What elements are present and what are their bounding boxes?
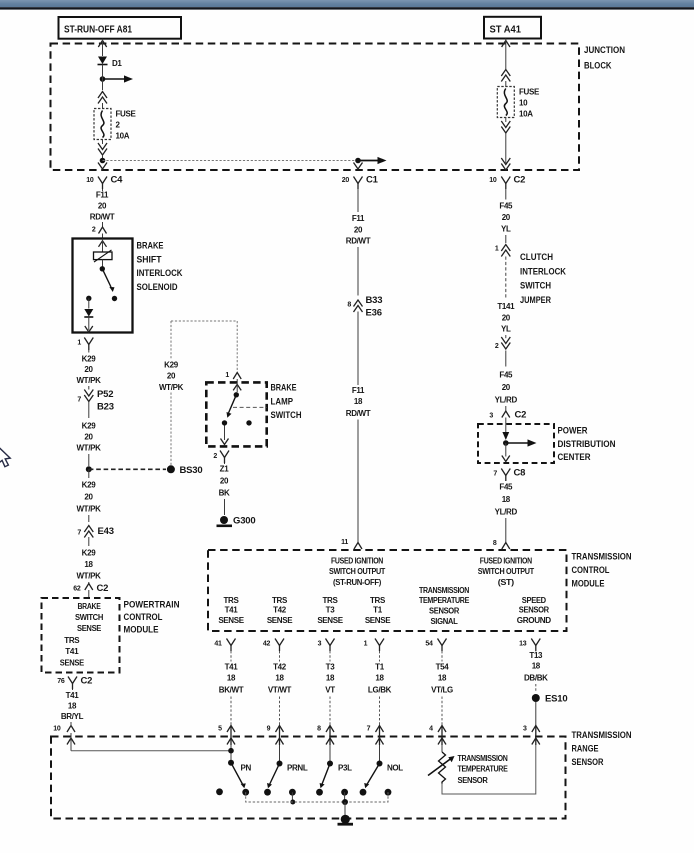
svg-text:F45: F45	[499, 483, 513, 492]
svg-text:20: 20	[502, 213, 511, 222]
svg-text:20: 20	[342, 177, 350, 184]
connector pin 5 (TRS)	[218, 726, 235, 746]
svg-text:K29: K29	[82, 481, 97, 490]
svg-text:T3: T3	[326, 606, 336, 615]
svg-text:C4: C4	[111, 175, 124, 186]
connector pin 1 (solenoid)	[77, 326, 93, 350]
svg-text:TRS: TRS	[224, 596, 240, 605]
svg-text:1: 1	[495, 246, 499, 253]
svg-text:7: 7	[77, 397, 81, 404]
svg-text:20: 20	[502, 314, 511, 323]
svg-text:ST A41: ST A41	[490, 23, 522, 35]
connector pin 1 (brake lamp switch)	[225, 372, 241, 383]
svg-text:1: 1	[225, 372, 229, 379]
svg-text:TRANSMISSION: TRANSMISSION	[572, 730, 632, 741]
connector pin 4 (TRS)	[429, 726, 446, 746]
wire K29 20 WT/PK (2)	[76, 422, 101, 467]
svg-text:C2: C2	[515, 410, 527, 421]
svg-text:BRAKE: BRAKE	[78, 602, 102, 611]
svg-text:Z1: Z1	[220, 465, 230, 474]
connector pin 42 (TCM)	[263, 639, 284, 652]
wire T13 18 DB/BK	[524, 651, 548, 692]
solenoid entry connector	[99, 241, 107, 247]
svg-text:SWITCH: SWITCH	[520, 281, 551, 292]
connector pin 8 (TCM)	[493, 540, 510, 549]
svg-text:WT/PK: WT/PK	[76, 572, 101, 581]
svg-text:10: 10	[86, 177, 94, 184]
svg-text:1: 1	[364, 641, 368, 648]
svg-text:CONTROL: CONTROL	[124, 612, 163, 623]
svg-text:TRANSMISSION: TRANSMISSION	[419, 586, 469, 595]
node label ST A41	[484, 17, 541, 39]
svg-text:SENSE: SENSE	[77, 624, 102, 633]
svg-text:MODULE: MODULE	[572, 579, 605, 590]
svg-text:T41: T41	[65, 647, 79, 656]
TCM label fused ignition st	[478, 557, 534, 587]
svg-text:FUSE: FUSE	[116, 110, 137, 119]
connector at A81 entry	[98, 41, 106, 48]
svg-text:K29: K29	[164, 361, 179, 370]
svg-text:C2: C2	[97, 583, 109, 594]
wire T1 18 LG/BK	[368, 651, 392, 726]
svg-text:BK/WT: BK/WT	[219, 686, 244, 695]
svg-text:YL: YL	[501, 225, 511, 234]
svg-text:BRAKE: BRAKE	[271, 383, 297, 394]
wire T54 18 VT/LG	[431, 651, 453, 726]
svg-text:F45: F45	[499, 202, 513, 211]
connector pin 9 (TRS)	[267, 726, 284, 746]
svg-text:T141: T141	[497, 302, 515, 311]
svg-text:20: 20	[354, 226, 363, 235]
wire K29 20 WT/PK (1)	[76, 350, 101, 390]
connector pin 3 (TRS)	[523, 726, 540, 746]
svg-text:TEMPERATURE: TEMPERATURE	[458, 765, 509, 774]
solenoid coil	[94, 239, 113, 267]
svg-text:E36: E36	[366, 308, 382, 319]
svg-text:SENSOR: SENSOR	[519, 606, 550, 615]
brake shift interlock solenoid	[73, 239, 183, 333]
svg-text:F11: F11	[352, 386, 365, 395]
connector pin 7 (TRS)	[367, 726, 384, 746]
window title bar	[0, 0, 694, 10]
TCM label TRS T1 SENSE	[365, 596, 391, 625]
svg-text:8: 8	[347, 302, 351, 309]
svg-text:9: 9	[267, 726, 271, 733]
wire T42 18 VT/WT	[268, 651, 292, 726]
wire T41 18 BK/WT	[219, 651, 244, 726]
svg-text:F11: F11	[352, 214, 365, 223]
svg-text:18: 18	[438, 674, 447, 683]
wire Z1 20 BK	[219, 463, 230, 515]
svg-text:18: 18	[326, 674, 335, 683]
TCM label TRS T3 SENSE	[317, 596, 343, 625]
svg-text:CLUTCH: CLUTCH	[520, 252, 553, 263]
PDC node and arrows	[502, 424, 537, 462]
svg-text:T3: T3	[326, 663, 336, 672]
connector pin 54 (TCM)	[425, 639, 446, 652]
svg-text:B23: B23	[97, 402, 114, 413]
svg-text:2: 2	[213, 453, 217, 460]
switch PN	[228, 760, 251, 796]
svg-text:T54: T54	[436, 663, 450, 672]
wire pin 10 link	[71, 733, 231, 751]
svg-text:WT/PK: WT/PK	[76, 505, 101, 514]
svg-text:TRS: TRS	[323, 596, 339, 605]
svg-text:18: 18	[227, 674, 236, 683]
TCM label speed sensor ground	[517, 596, 552, 625]
connector C1 pin 20	[342, 163, 379, 190]
brake lamp switch contacts	[222, 382, 267, 425]
svg-text:BRAKE: BRAKE	[137, 241, 164, 252]
svg-text:8: 8	[317, 726, 321, 733]
svg-text:T42: T42	[273, 606, 287, 615]
svg-text:SENSE: SENSE	[60, 659, 85, 668]
wire K29 18 WT/PK	[76, 549, 101, 584]
node J1	[100, 76, 106, 82]
svg-text:76: 76	[57, 678, 65, 685]
svg-text:7: 7	[77, 530, 81, 537]
ground (TRS case)	[338, 802, 354, 826]
svg-text:BS30: BS30	[180, 465, 203, 476]
svg-text:11: 11	[341, 539, 348, 546]
svg-text:C1: C1	[366, 175, 379, 186]
in-line connector above fuse 2	[98, 92, 107, 104]
connector pin 41 (TCM)	[214, 639, 235, 652]
wire F45 20 YL	[499, 189, 513, 243]
svg-text:T1: T1	[373, 606, 383, 615]
switch NOL	[360, 745, 404, 796]
wire T3 18 VT	[325, 651, 335, 726]
in-line connector P52 B23	[77, 389, 113, 418]
svg-text:SENSE: SENSE	[317, 616, 343, 625]
svg-text:T42: T42	[273, 663, 287, 672]
svg-text:K29: K29	[82, 422, 97, 431]
contact dot (bus tap 1)	[289, 789, 296, 805]
transmission control module	[208, 550, 632, 631]
wire F11 20 RD/WT (C1)	[346, 189, 371, 296]
svg-text:FUSED IGNITION: FUSED IGNITION	[480, 557, 532, 566]
svg-text:BR/YL: BR/YL	[61, 712, 84, 721]
svg-text:POWERTRAIN: POWERTRAIN	[124, 600, 180, 611]
wire F11 20 RD/WT (C4)	[90, 189, 115, 227]
svg-text:TRANSMISSION: TRANSMISSION	[572, 552, 632, 563]
svg-text:RD/WT: RD/WT	[346, 409, 371, 418]
connector C2 pin 3	[489, 410, 526, 425]
connector C2 pin 10 (right)	[489, 158, 525, 189]
in-line connector E43	[77, 526, 113, 547]
svg-text:RANGE: RANGE	[572, 744, 599, 755]
svg-text:3: 3	[318, 641, 322, 648]
svg-text:ST-RUN-OFF A81: ST-RUN-OFF A81	[64, 24, 132, 36]
svg-text:1: 1	[77, 340, 81, 347]
diode D1	[98, 57, 123, 77]
svg-text:RD/WT: RD/WT	[90, 213, 115, 222]
in-line connector B33 E36	[347, 295, 382, 319]
ground G300	[217, 516, 256, 528]
connector pin 10 (TRS)	[53, 722, 75, 745]
svg-text:8: 8	[493, 540, 497, 547]
svg-text:FUSE: FUSE	[519, 88, 540, 97]
in-line connector above fuse 10	[501, 70, 510, 82]
svg-text:SENSE: SENSE	[218, 616, 244, 625]
splice BS30	[167, 465, 203, 476]
svg-text:TRANSMISSION: TRANSMISSION	[458, 754, 508, 763]
connector pin 2 (solenoid)	[92, 227, 107, 239]
connector C8 pin 7	[493, 468, 525, 482]
svg-text:2: 2	[495, 343, 499, 350]
svg-text:54: 54	[425, 641, 433, 648]
connector C2 pin 62	[73, 583, 108, 598]
transmission temperature sensor	[428, 745, 508, 785]
svg-text:VT/LG: VT/LG	[431, 686, 453, 695]
common bus	[246, 792, 388, 805]
svg-text:SWITCH: SWITCH	[271, 410, 302, 421]
svg-text:20: 20	[84, 493, 93, 502]
svg-text:YL/RD: YL/RD	[495, 396, 518, 405]
svg-text:18: 18	[532, 662, 541, 671]
svg-text:P52: P52	[97, 389, 113, 400]
transmission range sensor	[51, 730, 632, 819]
PCM label trs t41 sense	[60, 636, 85, 668]
wire to fuse 10	[505, 81, 507, 87]
connector pin 13 (TCM)	[519, 639, 540, 652]
svg-text:SENSE: SENSE	[267, 616, 293, 625]
svg-text:18: 18	[275, 674, 284, 683]
svg-text:3: 3	[523, 726, 527, 733]
brake lamp switch	[206, 382, 301, 446]
wire T41 18 BR/YL	[61, 689, 84, 721]
svg-text:62: 62	[73, 586, 81, 593]
svg-text:VT: VT	[325, 686, 335, 695]
contact dot (left of PN)	[216, 788, 223, 795]
svg-text:42: 42	[263, 641, 271, 648]
svg-text:F11: F11	[96, 191, 109, 200]
wire ST A41 feed	[505, 39, 507, 70]
fuse 10 10A	[497, 87, 540, 119]
svg-text:C2: C2	[81, 676, 93, 687]
svg-text:10: 10	[53, 726, 61, 733]
svg-text:20: 20	[167, 372, 176, 381]
temp sensor return loop	[442, 745, 536, 794]
svg-text:WT/PK: WT/PK	[159, 383, 184, 392]
svg-text:C8: C8	[514, 468, 526, 479]
solenoid switch	[86, 266, 117, 301]
TCM label TRS T42 SENSE	[267, 596, 293, 625]
svg-text:PRNL: PRNL	[287, 764, 308, 773]
contact dot (ground tap)	[341, 789, 348, 802]
svg-text:20: 20	[220, 477, 229, 486]
connector pin 3 (TCM)	[318, 639, 335, 652]
svg-text:SENSOR: SENSOR	[572, 757, 604, 768]
svg-text:JUNCTION: JUNCTION	[584, 45, 625, 56]
svg-text:18: 18	[84, 560, 93, 569]
svg-text:T1: T1	[375, 663, 385, 672]
svg-text:SHIFT: SHIFT	[137, 254, 162, 265]
arrow feed toward C1	[361, 157, 387, 164]
svg-text:FUSED IGNITION: FUSED IGNITION	[331, 557, 383, 566]
svg-text:WT/PK: WT/PK	[76, 376, 101, 385]
svg-text:CENTER: CENTER	[558, 452, 591, 463]
svg-text:TRS: TRS	[272, 596, 288, 605]
svg-text:20: 20	[84, 433, 93, 442]
diode (solenoid)	[84, 298, 93, 330]
fuse 2 10A	[94, 109, 136, 141]
TCM label fused ignition st-run-off	[329, 557, 385, 587]
svg-text:F45: F45	[499, 371, 513, 380]
svg-text:20: 20	[98, 202, 107, 211]
svg-text:RD/WT: RD/WT	[346, 237, 371, 246]
svg-text:20: 20	[84, 365, 93, 374]
svg-text:LAMP: LAMP	[271, 396, 294, 407]
svg-text:T41: T41	[225, 663, 239, 672]
svg-text:INTERLOCK: INTERLOCK	[137, 268, 183, 279]
connector C4 pin 10	[86, 163, 123, 190]
svg-text:7: 7	[493, 471, 497, 478]
wire to fuse 2	[102, 103, 104, 109]
svg-text:SENSE: SENSE	[365, 616, 391, 625]
svg-text:3: 3	[489, 413, 493, 420]
svg-text:SWITCH: SWITCH	[75, 613, 104, 622]
wire A81 feed	[102, 39, 104, 56]
wire F45 18 YL/RD	[495, 483, 518, 543]
svg-text:DISTRIBUTION: DISTRIBUTION	[558, 439, 616, 450]
svg-text:(ST-RUN-OFF): (ST-RUN-OFF)	[333, 578, 382, 587]
svg-text:10: 10	[489, 177, 497, 184]
svg-text:LG/BK: LG/BK	[368, 686, 392, 695]
svg-text:T41: T41	[225, 606, 239, 615]
TCM label transmission temperature sensor signal	[419, 586, 470, 626]
svg-text:41: 41	[214, 641, 222, 648]
svg-text:MODULE: MODULE	[124, 625, 159, 636]
svg-text:(ST): (ST)	[498, 578, 515, 587]
powertrain control module	[42, 598, 180, 673]
svg-text:B33: B33	[366, 295, 383, 306]
svg-text:18: 18	[375, 674, 384, 683]
svg-text:ES10: ES10	[545, 694, 567, 705]
svg-text:10A: 10A	[519, 110, 533, 119]
svg-text:POWER: POWER	[558, 426, 588, 437]
svg-text:20: 20	[502, 383, 511, 392]
svg-text:10A: 10A	[116, 132, 130, 141]
power distribution center	[478, 424, 616, 463]
node J3	[355, 158, 361, 164]
wire F45 20 YL/RD	[495, 351, 518, 411]
svg-text:4: 4	[429, 726, 433, 733]
wire K29 20 WT/PK (3)	[76, 469, 101, 522]
clutch interlock switch jumper	[497, 252, 566, 340]
node J2	[100, 155, 106, 163]
svg-text:BK: BK	[219, 489, 230, 498]
switch PRNL	[264, 745, 308, 796]
wire K29 branch to brake lamp switch	[159, 321, 237, 465]
svg-text:18: 18	[502, 495, 511, 504]
connector at ST A41 entry	[502, 41, 510, 48]
arrow branch (junction block)	[103, 75, 134, 90]
PCM label brake switch sense	[75, 602, 104, 633]
TCM label TRS T41 SENSE	[218, 596, 244, 625]
svg-text:TEMPERATURE: TEMPERATURE	[419, 596, 470, 605]
in-line connector jumper pin 1	[495, 245, 510, 257]
svg-text:GROUND: GROUND	[517, 616, 552, 625]
svg-text:TRS: TRS	[64, 636, 80, 645]
node K29 splice branch	[86, 466, 92, 472]
svg-text:SIGNAL: SIGNAL	[431, 617, 458, 626]
connector pin 1 (TCM)	[364, 639, 384, 652]
svg-text:2: 2	[92, 227, 96, 234]
connector pin 8 (TRS)	[317, 726, 334, 746]
svg-text:T13: T13	[529, 651, 543, 660]
svg-text:PN: PN	[241, 764, 252, 773]
wire fuse 10 to C2	[505, 133, 507, 163]
svg-text:SWITCH OUTPUT: SWITCH OUTPUT	[478, 567, 534, 576]
svg-text:DB/BK: DB/BK	[524, 674, 548, 683]
wire junction bus	[103, 160, 359, 162]
in-line connector below fuse 10	[501, 118, 510, 134]
svg-text:NOL: NOL	[387, 764, 403, 773]
connector pin 2 (brake lamp switch)	[213, 426, 229, 464]
svg-text:10: 10	[519, 99, 528, 108]
svg-text:7: 7	[367, 726, 371, 733]
svg-text:SWITCH OUTPUT: SWITCH OUTPUT	[329, 567, 385, 576]
svg-text:YL: YL	[501, 325, 511, 334]
svg-text:G300: G300	[233, 516, 255, 527]
svg-text:BLOCK: BLOCK	[584, 61, 612, 72]
svg-text:K29: K29	[82, 355, 97, 364]
svg-text:JUMPER: JUMPER	[520, 295, 551, 306]
svg-text:WT/PK: WT/PK	[76, 444, 101, 453]
svg-text:YL/RD: YL/RD	[495, 508, 518, 517]
svg-text:P3L: P3L	[338, 764, 352, 773]
contact dot (bus end)	[385, 789, 392, 796]
svg-text:E43: E43	[98, 526, 114, 537]
in-line connector below fuse 2	[98, 140, 107, 156]
node label ST-RUN-OFF A81	[59, 17, 182, 39]
svg-text:18: 18	[354, 397, 363, 406]
svg-text:C2: C2	[514, 175, 526, 186]
splice ES10	[532, 694, 568, 727]
svg-text:SENSOR: SENSOR	[429, 607, 460, 616]
connector pin 11 (TCM)	[341, 539, 362, 549]
svg-text:SOLENOID: SOLENOID	[137, 282, 178, 293]
svg-text:TRS: TRS	[370, 596, 386, 605]
svg-text:VT/WT: VT/WT	[268, 686, 292, 695]
svg-text:D1: D1	[112, 59, 122, 68]
svg-text:K29: K29	[82, 549, 97, 558]
svg-text:INTERLOCK: INTERLOCK	[520, 266, 566, 277]
svg-text:SENSOR: SENSOR	[458, 776, 489, 785]
svg-text:T41: T41	[66, 691, 80, 700]
wire F11 18 RD/WT	[346, 312, 371, 543]
wire to splice BS30	[89, 468, 166, 470]
switch P3L	[316, 745, 352, 796]
svg-text:CONTROL: CONTROL	[572, 565, 610, 576]
svg-text:SPEED: SPEED	[522, 596, 547, 605]
connector C2 pin 76	[57, 676, 92, 690]
svg-text:18: 18	[68, 702, 77, 711]
mouse cursor	[0, 447, 10, 467]
svg-text:13: 13	[519, 641, 527, 648]
svg-text:5: 5	[218, 726, 222, 733]
node pin5/pin10	[228, 745, 234, 760]
junction block boundary	[51, 44, 626, 171]
in-line connector jumper pin 2	[495, 337, 510, 350]
